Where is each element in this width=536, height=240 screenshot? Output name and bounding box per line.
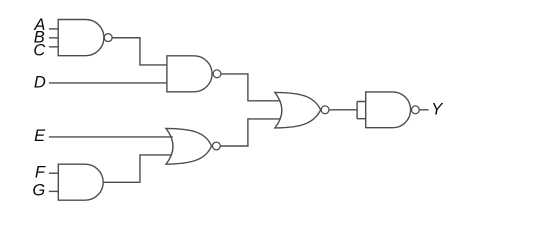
svg-text:Y: Y xyxy=(431,101,443,119)
wire U2 out to U3 top input xyxy=(221,74,281,101)
bubble U3 output xyxy=(321,106,329,114)
svg-text:C: C xyxy=(33,41,45,59)
svg-text:F: F xyxy=(35,164,46,182)
nand U2 (2-input NAND, inputs U1-out and D) xyxy=(167,56,212,92)
bubble U2 output xyxy=(213,70,221,78)
wire U3 out xyxy=(329,109,357,111)
nor U4 (2-input NOR, lower) xyxy=(166,128,212,164)
nor U3 (2-input NOR, main) xyxy=(275,92,321,128)
svg-text:G: G xyxy=(32,182,45,200)
nand U5 (NAND as inverter) xyxy=(366,92,411,128)
wire U6 out to U4 bottom input xyxy=(103,155,172,182)
wire input split bar of U5 xyxy=(357,102,366,119)
wire U1 out to U2 top input xyxy=(112,38,167,65)
wire B stub xyxy=(49,37,58,39)
wire A stub xyxy=(49,28,58,30)
wire G stub xyxy=(49,190,58,192)
wire U5 out to Y xyxy=(419,109,428,111)
wire F stub xyxy=(49,172,58,174)
wire D line xyxy=(49,82,167,84)
svg-text:E: E xyxy=(34,127,46,145)
bubble U1 output xyxy=(104,34,112,42)
wire U4 out up to U3 bottom input xyxy=(220,119,280,146)
wire C stub xyxy=(49,46,58,48)
nand U1 (3-input NAND, inputs A B C) xyxy=(58,20,104,56)
bubble U5 output xyxy=(412,106,420,114)
svg-text:D: D xyxy=(34,73,46,91)
bubble U4 output xyxy=(213,142,221,150)
wire E line xyxy=(49,136,173,138)
and U6 (2-input AND, inputs F G) xyxy=(58,164,103,200)
